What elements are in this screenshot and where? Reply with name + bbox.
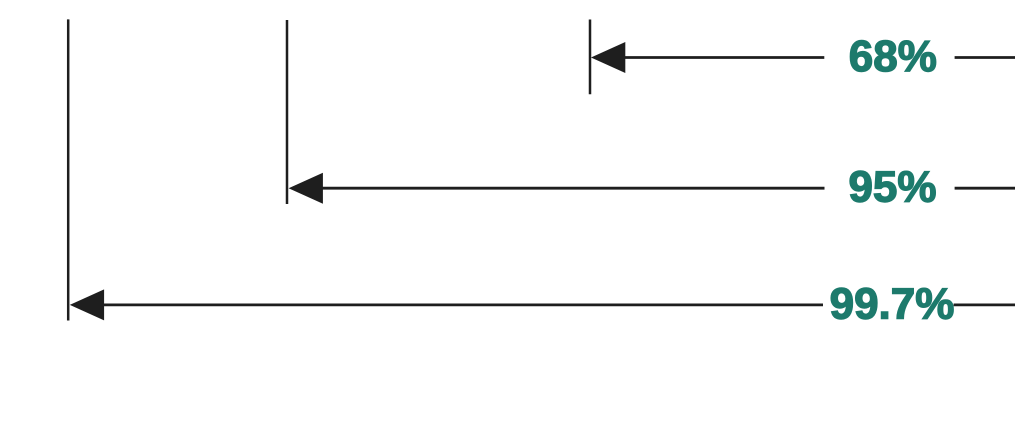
svg-text:68%: 68%	[849, 32, 937, 81]
wire 68% left segment	[624, 56, 824, 59]
wire 99.7% right segment	[954, 303, 1015, 306]
arrowhead 68%	[591, 42, 625, 73]
vertical line sigma-3 left	[67, 19, 70, 320]
wire 99.7% left segment	[103, 303, 823, 306]
vertical line sigma-2 left	[286, 20, 289, 204]
svg-text:95%: 95%	[848, 163, 936, 212]
arrowhead 99.7%	[70, 289, 104, 320]
vertical line sigma-1 left	[589, 20, 592, 95]
wire 95% left segment	[322, 187, 825, 190]
arrowhead 95%	[289, 173, 323, 204]
wire 95% right segment	[955, 187, 1015, 190]
wire 68% right segment	[955, 56, 1015, 59]
svg-text:99.7%: 99.7%	[830, 279, 955, 328]
